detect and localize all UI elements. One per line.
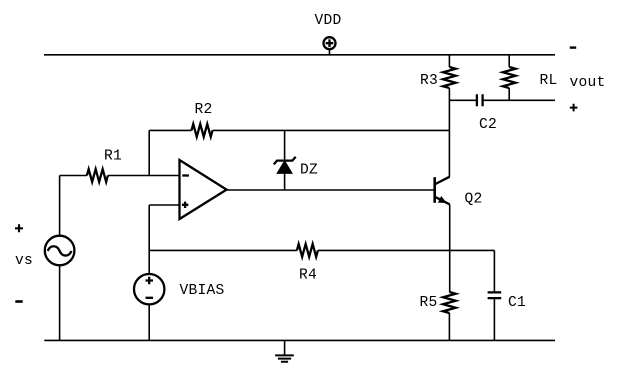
resistor R1 (87, 169, 108, 182)
capacitor C2 (477, 94, 483, 106)
wire bottom ground rail (44, 339, 555, 341)
voltage source VBIAS (134, 274, 164, 340)
svg-text:DZ: DZ (300, 163, 318, 179)
label vs minus terminal (15, 300, 22, 303)
svg-text:R4: R4 (299, 268, 317, 284)
resistor R4 (297, 244, 318, 257)
svg-text:vs: vs (15, 253, 33, 269)
wire collector node vertical (448, 100, 450, 176)
svg-text:VBIAS: VBIAS (180, 283, 225, 299)
svg-text:R3: R3 (420, 73, 438, 89)
svg-text:VDD: VDD (315, 13, 342, 29)
wire R2 feedback horizontal (149, 129, 449, 131)
voltage source vs (45, 176, 75, 341)
resistor R5 (443, 292, 456, 340)
svg-text:C1: C1 (508, 295, 526, 311)
svg-text:C2: C2 (479, 117, 497, 133)
ground (275, 340, 294, 361)
resistor RL (503, 55, 516, 101)
wire R1 input (60, 175, 180, 177)
svg-text:Q2: Q2 (465, 192, 483, 208)
wire VBIAS vertical (148, 205, 150, 274)
capacitor C1 (488, 250, 502, 340)
svg-text:RL: RL (540, 73, 558, 89)
wire vout node (449, 99, 555, 101)
label vs plus terminal (15, 224, 23, 232)
wire op-amp output to Q2 base (227, 189, 435, 191)
svg-text:R2: R2 (195, 102, 213, 118)
transistor Q2 (435, 177, 450, 205)
label vout plus terminal (570, 104, 578, 112)
wire emitter vertical (449, 204, 451, 292)
wire top VDD rail (44, 54, 555, 56)
svg-text:R5: R5 (420, 295, 438, 311)
power symbol VDD (324, 37, 336, 55)
resistor R2 (192, 124, 213, 137)
wire non-inverting input (149, 204, 179, 206)
resistor R3 (443, 55, 456, 101)
zener diode DZ (274, 130, 296, 190)
wire feedback vertical to inverting node (148, 130, 150, 175)
op-amp U1 (180, 160, 227, 219)
svg-text:vout: vout (570, 75, 606, 91)
svg-text:R1: R1 (104, 149, 122, 165)
label vout minus terminal (570, 46, 576, 48)
wire R4 horizontal (149, 249, 494, 251)
